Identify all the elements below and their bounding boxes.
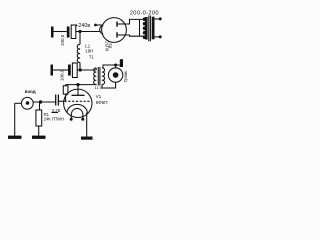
wire secondary bottom loop	[102, 82, 116, 88]
power transformer Тр 200-0-200	[130, 10, 162, 41]
svg-text:V1: V1	[96, 94, 102, 99]
ground (cathode)	[81, 137, 93, 140]
resistor R1 24К	[36, 102, 64, 136]
ground (filter cap C4)	[51, 65, 54, 76]
choke L1 18Н	[77, 32, 93, 71]
wire jack to C1	[33, 101, 55, 103]
cathode ground wire	[86, 113, 88, 137]
terminals	[155, 18, 161, 20]
output tube V1 6Ф6П	[64, 85, 108, 121]
heater leads	[70, 113, 72, 118]
svg-text:+240в: +240в	[75, 23, 90, 29]
svg-text:6Ф6П: 6Ф6П	[96, 100, 108, 105]
primary winding	[95, 68, 97, 70]
heater arc	[72, 108, 83, 113]
anode plate 1	[116, 21, 118, 26]
secondary winding	[102, 68, 105, 85]
anode	[77, 85, 79, 96]
anode plate 2	[116, 32, 118, 37]
svg-text:Т1: Т1	[89, 55, 95, 60]
svg-text:200-0-200: 200-0-200	[130, 10, 159, 16]
rectifier tube Л2 6Ц5С	[94, 18, 126, 52]
cathode arc	[100, 25, 104, 34]
svg-text:6Ц5С: 6Ц5С	[105, 41, 110, 52]
label 3,2В	[52, 108, 61, 113]
anode wires to power transformer	[126, 19, 144, 24]
output transformer Т1	[89, 55, 105, 90]
node +240в	[78, 30, 81, 33]
loudspeaker Громк	[108, 65, 127, 82]
ground (jack)	[8, 136, 22, 139]
wire +240v rail	[76, 31, 100, 33]
capacitor C1	[56, 95, 65, 106]
svg-text:100,0: 100,0	[60, 69, 65, 81]
ground (filter cap C3)	[51, 27, 54, 38]
wire	[54, 31, 67, 33]
node B	[79, 68, 82, 71]
node grid junction	[39, 100, 42, 103]
wire (bracket vertical)	[139, 19, 141, 36]
svg-text:18Н: 18Н	[85, 48, 93, 53]
svg-text:Громк.: Громк.	[123, 70, 128, 82]
filament terminal dot	[94, 24, 97, 27]
input jack вход	[15, 89, 36, 136]
capacitor C4 100,0	[60, 63, 78, 81]
speaker loop: secondary top to ground	[102, 65, 120, 68]
core	[148, 16, 150, 42]
wire	[53, 69, 68, 71]
svg-text:вход: вход	[25, 89, 36, 94]
anode wire (T1 primary bottom to V1)	[66, 83, 97, 85]
core	[97, 67, 99, 86]
svg-text:24К ПТМН: 24К ПТМН	[44, 116, 64, 121]
resistor R2 (feedback)	[63, 85, 68, 102]
left winding (secondary)	[145, 17, 148, 40]
ground (speaker)	[120, 59, 123, 67]
cathode arc	[67, 104, 87, 113]
ground (R1)	[32, 136, 46, 139]
wire B+ rail to T1	[77, 69, 96, 71]
svg-text:100,0: 100,0	[60, 34, 65, 46]
right winding (primary)	[152, 17, 155, 40]
node speaker top	[114, 64, 117, 67]
capacitor C3 100,0	[60, 25, 76, 46]
node anode	[76, 83, 79, 86]
grid (dashed)	[65, 100, 90, 102]
